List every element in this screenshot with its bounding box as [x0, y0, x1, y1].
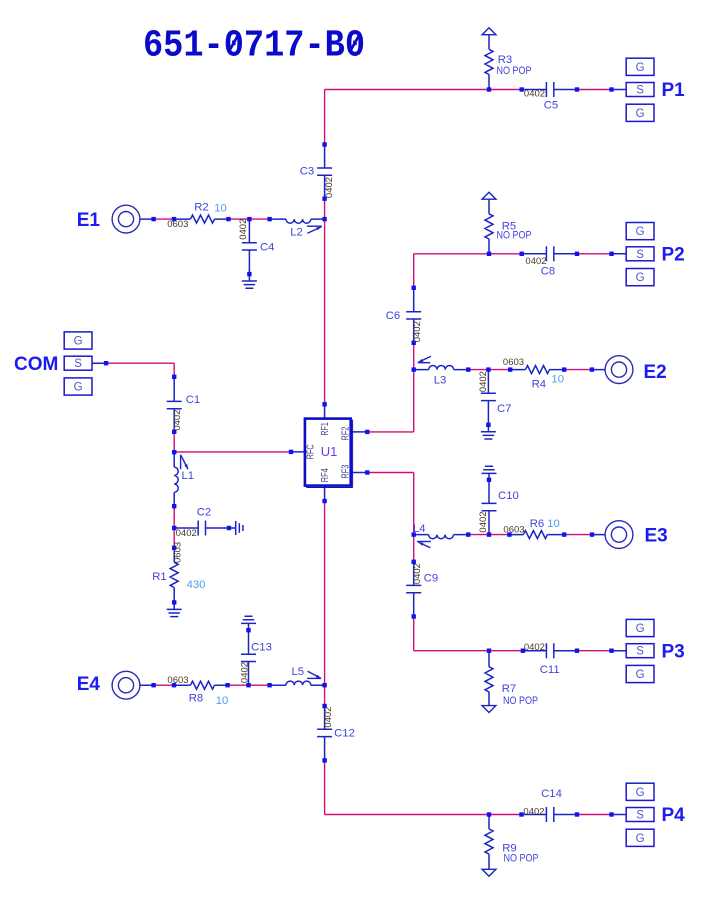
svg-text:L1: L1 — [182, 470, 195, 482]
svg-text:C7: C7 — [497, 403, 511, 415]
svg-text:C10: C10 — [498, 490, 519, 502]
svg-text:0402: 0402 — [172, 410, 183, 431]
svg-text:0402: 0402 — [412, 563, 423, 584]
svg-text:R2: R2 — [194, 202, 208, 214]
svg-text:S: S — [636, 85, 644, 97]
svg-text:G: G — [74, 382, 83, 394]
svg-text:G: G — [636, 272, 645, 284]
svg-text:P3: P3 — [662, 641, 685, 662]
svg-text:C8: C8 — [541, 266, 555, 278]
svg-text:0603: 0603 — [167, 219, 188, 230]
svg-text:U1: U1 — [321, 444, 338, 459]
svg-text:0402: 0402 — [478, 511, 489, 532]
svg-text:S: S — [636, 646, 644, 658]
svg-text:L2: L2 — [290, 227, 303, 239]
svg-text:10: 10 — [547, 518, 560, 530]
svg-text:G: G — [74, 336, 83, 348]
svg-text:L3: L3 — [434, 374, 447, 386]
svg-text:G: G — [636, 62, 645, 74]
svg-text:0402: 0402 — [176, 528, 197, 539]
svg-text:0603: 0603 — [503, 357, 524, 368]
svg-text:C13: C13 — [251, 641, 272, 653]
svg-text:E2: E2 — [644, 362, 667, 383]
svg-text:RF4: RF4 — [320, 468, 331, 482]
svg-text:G: G — [636, 623, 645, 635]
svg-text:G: G — [636, 669, 645, 681]
svg-text:C2: C2 — [197, 507, 211, 519]
svg-text:G: G — [636, 833, 645, 845]
svg-text:L5: L5 — [292, 666, 305, 678]
svg-text:G: G — [636, 108, 645, 120]
svg-text:0603: 0603 — [503, 524, 524, 535]
svg-text:C6: C6 — [386, 310, 400, 322]
svg-text:L4: L4 — [413, 523, 426, 535]
svg-text:NO POP: NO POP — [504, 852, 539, 864]
svg-text:NO POP: NO POP — [497, 230, 532, 242]
svg-text:430: 430 — [187, 579, 206, 591]
svg-text:RF3: RF3 — [340, 464, 351, 478]
svg-text:G: G — [636, 226, 645, 238]
svg-text:R4: R4 — [532, 379, 546, 391]
svg-text:0402: 0402 — [524, 89, 545, 100]
svg-text:E3: E3 — [645, 525, 668, 546]
svg-text:S: S — [636, 810, 644, 822]
svg-text:RF1: RF1 — [320, 422, 331, 436]
svg-text:0402: 0402 — [323, 707, 334, 728]
svg-text:P2: P2 — [662, 245, 685, 266]
svg-text:C3: C3 — [300, 166, 314, 178]
svg-text:0603: 0603 — [167, 675, 188, 686]
svg-text:C9: C9 — [424, 572, 438, 584]
svg-text:R6: R6 — [530, 518, 544, 530]
svg-text:C11: C11 — [540, 664, 560, 676]
svg-text:0402: 0402 — [478, 371, 489, 392]
svg-text:0402: 0402 — [412, 321, 423, 342]
svg-text:R1: R1 — [152, 571, 166, 583]
svg-text:RFC: RFC — [306, 444, 317, 459]
svg-text:10: 10 — [551, 374, 564, 386]
svg-text:C14: C14 — [541, 788, 562, 800]
svg-text:C12: C12 — [334, 728, 355, 740]
svg-text:C1: C1 — [186, 394, 200, 406]
svg-text:P4: P4 — [662, 805, 686, 826]
svg-text:651-0717-B0: 651-0717-B0 — [143, 25, 365, 68]
svg-text:C4: C4 — [260, 241, 274, 253]
svg-text:E4: E4 — [77, 674, 101, 695]
svg-text:0402: 0402 — [240, 662, 251, 683]
svg-text:G: G — [636, 787, 645, 799]
svg-text:10: 10 — [216, 695, 229, 707]
svg-text:0402: 0402 — [523, 807, 544, 818]
svg-text:E1: E1 — [77, 210, 101, 231]
svg-text:0603: 0603 — [173, 542, 184, 563]
svg-text:NO POP: NO POP — [497, 65, 532, 77]
svg-text:R7: R7 — [502, 683, 516, 695]
svg-text:P1: P1 — [662, 80, 686, 101]
svg-text:0402: 0402 — [238, 219, 249, 240]
svg-text:0402: 0402 — [524, 642, 545, 653]
svg-text:NO POP: NO POP — [503, 695, 538, 707]
svg-text:S: S — [74, 358, 82, 370]
svg-text:10: 10 — [214, 203, 227, 215]
svg-text:C5: C5 — [544, 100, 558, 112]
svg-text:0402: 0402 — [324, 177, 335, 198]
svg-text:R8: R8 — [189, 692, 203, 704]
svg-text:COM: COM — [14, 354, 58, 375]
svg-text:S: S — [636, 249, 644, 261]
svg-text:RF2: RF2 — [340, 426, 351, 440]
svg-text:0402: 0402 — [525, 256, 546, 267]
